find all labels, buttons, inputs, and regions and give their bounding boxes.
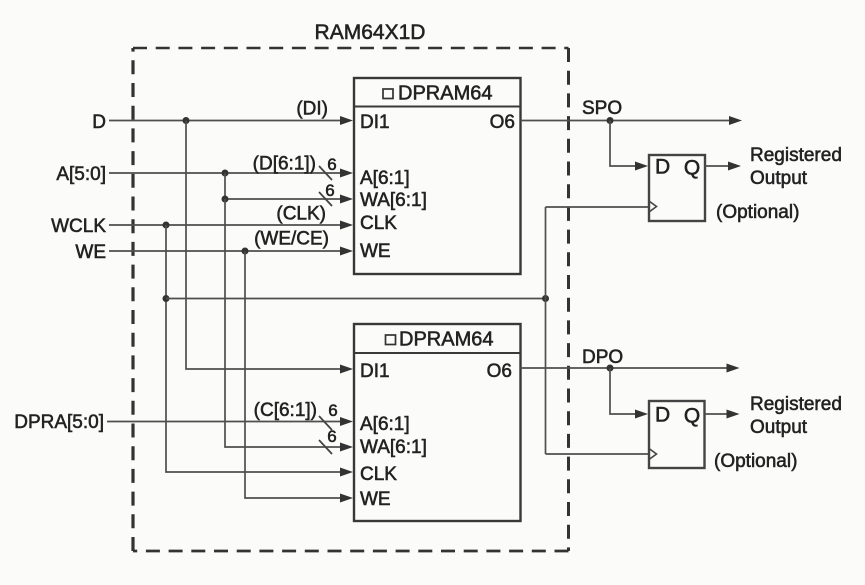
- U1 pin label A[6:1]: [360, 168, 410, 189]
- svg-text:WA[6:1]: WA[6:1]: [360, 437, 427, 458]
- svg-text:(Optional): (Optional): [714, 451, 797, 472]
- input label WCLK: [51, 216, 106, 237]
- wire WCLK to U1 CLK: [109, 221, 353, 230]
- node junction WE rail: [242, 248, 249, 255]
- svg-text:SPO: SPO: [582, 98, 622, 119]
- U2 pin label CLK: [360, 464, 397, 485]
- bus-width slash 6 on U2 WA bus: [319, 427, 337, 454]
- bus-width slash 6 on DPRA bus: [319, 401, 338, 430]
- wire D rail down to U2 DI1: [186, 121, 353, 374]
- wire register clock rail: [545, 207, 547, 454]
- svg-text:(WE/CE): (WE/CE): [254, 229, 329, 250]
- svg-text:Registered: Registered: [750, 394, 842, 415]
- svg-text:DPRAM64: DPRAM64: [399, 329, 493, 351]
- svg-text:Registered: Registered: [750, 145, 842, 166]
- svg-text:(Optional): (Optional): [716, 202, 799, 223]
- node junction WA branch: [222, 196, 229, 203]
- node junction A rail: [222, 170, 229, 177]
- svg-text:(C[6:1]): (C[6:1]): [254, 400, 317, 421]
- node junction WCLK to register clocks: [163, 295, 170, 302]
- net label (DI): [296, 99, 328, 120]
- U1 pin label O6: [490, 112, 515, 133]
- svg-text:(CLK): (CLK): [276, 204, 326, 225]
- input label A[5:0]: [56, 164, 106, 185]
- node junction D rail: [183, 117, 190, 124]
- svg-text:DPRA[5:0]: DPRA[5:0]: [14, 412, 104, 433]
- U1 header label DPRAM64: [383, 83, 492, 105]
- svg-text:Q: Q: [684, 157, 700, 180]
- svg-text:WE: WE: [75, 242, 106, 263]
- U1 pin label WA[6:1]: [360, 190, 427, 211]
- flip-flop FF1 (optional register, upper): [649, 155, 705, 221]
- node junction WCLK rail: [163, 222, 170, 229]
- dashed boundary RAM64X1D: [133, 48, 569, 551]
- U2 pin label A[6:1]: [360, 414, 410, 435]
- net label (D[6:1]): [253, 154, 316, 175]
- input label DPRA[5:0]: [14, 412, 104, 433]
- wire A[5:0] to U1 A[6:1]: [109, 169, 353, 178]
- node junction SPO: [607, 117, 614, 124]
- net label DPO: [582, 347, 623, 368]
- net label (CLK): [276, 204, 326, 225]
- wire clock to FF1: [546, 206, 650, 208]
- svg-text:WA[6:1]: WA[6:1]: [360, 190, 427, 211]
- svg-text:CLK: CLK: [360, 464, 397, 485]
- bus-width slash 6 on A bus: [319, 155, 337, 180]
- svg-text:RAM64X1D: RAM64X1D: [315, 21, 426, 44]
- label Registered Output (upper): [750, 145, 842, 189]
- wire SPO to FF1 D input: [610, 121, 648, 171]
- net label (C[6:1]): [254, 400, 317, 421]
- bus-width slash 6 on WA bus: [319, 181, 335, 206]
- U1 pin label DI1: [360, 112, 390, 133]
- flip-flop FF2 (optional register, lower): [649, 401, 705, 468]
- svg-text:A[6:1]: A[6:1]: [360, 168, 410, 189]
- label Registered Output (lower): [750, 394, 842, 438]
- svg-text:(D[6:1]): (D[6:1]): [253, 154, 316, 175]
- svg-text:Output: Output: [750, 168, 808, 189]
- label (Optional) (lower): [714, 451, 797, 472]
- input label D: [92, 112, 106, 133]
- wire DPO to FF2 D input: [610, 368, 648, 419]
- wire WE to U1 WE: [109, 247, 353, 256]
- wire A rail down to U2 WA[6:1]: [225, 199, 353, 452]
- wire DPRA[5:0] to U2 A[6:1]: [107, 417, 353, 426]
- net label SPO: [582, 98, 622, 119]
- svg-text:WE: WE: [360, 241, 391, 262]
- U2 pin label WA[6:1]: [360, 437, 427, 458]
- dual-port RAM block U2 DPRAM64 (lower): [354, 324, 521, 521]
- U1 pin label CLK: [360, 213, 397, 234]
- svg-text:DI1: DI1: [360, 361, 390, 382]
- wire U2 O6 output DPO: [521, 364, 740, 373]
- wire WCLK rail down to U2 CLK: [166, 225, 353, 477]
- wire D to U1 DI1: [109, 116, 353, 125]
- svg-text:6: 6: [325, 181, 334, 200]
- wire FF1 Q output: [705, 162, 741, 171]
- svg-text:WCLK: WCLK: [51, 216, 106, 237]
- FF2 pin label D: [655, 404, 670, 427]
- svg-text:6: 6: [328, 401, 337, 420]
- svg-text:Output: Output: [750, 417, 808, 438]
- svg-text:O6: O6: [487, 361, 512, 382]
- FF2 pin label Q: [684, 405, 700, 428]
- label (Optional) (upper): [716, 202, 799, 223]
- svg-text:D: D: [92, 112, 106, 133]
- svg-text:A[6:1]: A[6:1]: [360, 414, 410, 435]
- svg-text:O6: O6: [490, 112, 515, 133]
- U2 pin label WE: [360, 489, 391, 510]
- U2 pin label DI1: [360, 361, 390, 382]
- FF1 pin label D: [655, 156, 670, 179]
- U2 header label DPRAM64: [386, 329, 494, 351]
- U1 pin label WE: [360, 241, 391, 262]
- wire A rail branch to U1 WA[6:1]: [225, 173, 353, 204]
- dual-port RAM block U1 DPRAM64 (upper): [354, 78, 521, 274]
- U2 pin label O6: [487, 361, 512, 382]
- svg-text:A[5:0]: A[5:0]: [56, 164, 106, 185]
- wire U1 O6 output SPO: [521, 116, 743, 125]
- node junction DPO: [607, 365, 614, 372]
- title RAM64X1D: [315, 21, 426, 44]
- svg-text:D: D: [655, 156, 670, 179]
- net label (WE/CE): [254, 229, 329, 250]
- svg-text:DI1: DI1: [360, 112, 390, 133]
- svg-text:CLK: CLK: [360, 213, 397, 234]
- wire WE rail down to U2 WE: [245, 251, 353, 503]
- wire clock to FF2: [546, 453, 650, 455]
- svg-text:WE: WE: [360, 489, 391, 510]
- svg-text:Q: Q: [684, 405, 700, 428]
- wire FF2 Q output: [705, 410, 740, 419]
- node junction register clock rail: [542, 295, 549, 302]
- input label WE: [75, 242, 106, 263]
- svg-text:(DI): (DI): [296, 99, 328, 120]
- svg-text:DPRAM64: DPRAM64: [398, 83, 492, 105]
- FF1 pin label Q: [684, 157, 700, 180]
- svg-text:DPO: DPO: [582, 347, 623, 368]
- svg-text:D: D: [655, 404, 670, 427]
- svg-text:6: 6: [327, 155, 336, 174]
- wire WCLK feed to register clocks: [166, 298, 546, 300]
